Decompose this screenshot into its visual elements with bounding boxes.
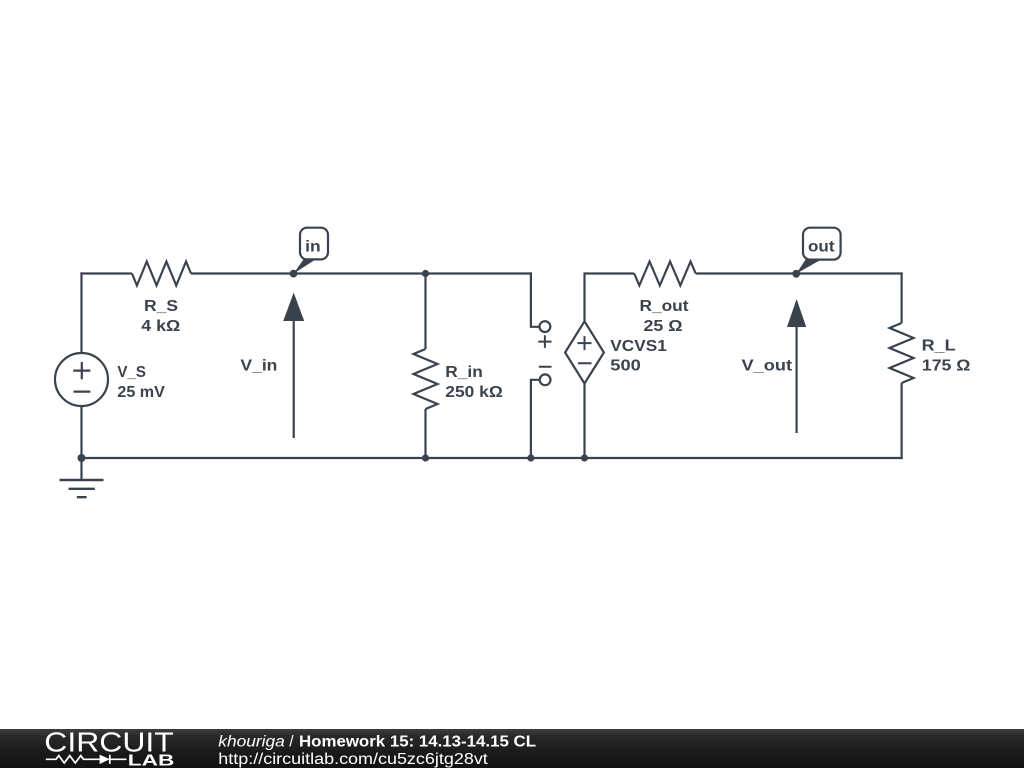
svg-text:LAB: LAB [128,752,175,768]
svg-text:Homework 15: 14.13-14.15 CL: Homework 15: 14.13-14.15 CL [299,733,536,750]
svg-text:175 Ω: 175 Ω [922,357,971,374]
svg-text:V_in: V_in [240,358,277,375]
svg-text:4 kΩ: 4 kΩ [141,318,180,335]
svg-text:V_S: V_S [117,364,146,381]
svg-text:out: out [808,238,835,255]
svg-text:R_S: R_S [144,298,178,315]
svg-text:/: / [289,733,294,750]
svg-text:VCVS1: VCVS1 [610,338,667,355]
svg-text:500: 500 [610,357,641,374]
svg-text:250 kΩ: 250 kΩ [445,384,503,401]
svg-text:V_out: V_out [742,358,793,375]
svg-text:25 Ω: 25 Ω [644,318,683,335]
svg-text:in: in [305,238,321,255]
svg-text:khouriga: khouriga [218,733,285,750]
svg-text:R_L: R_L [922,337,956,354]
svg-text:R_out: R_out [640,298,690,315]
svg-text:http://circuitlab.com/cu5zc6jt: http://circuitlab.com/cu5zc6jtg28vt [218,751,488,768]
svg-text:25 mV: 25 mV [117,384,165,401]
svg-text:R_in: R_in [445,364,483,381]
